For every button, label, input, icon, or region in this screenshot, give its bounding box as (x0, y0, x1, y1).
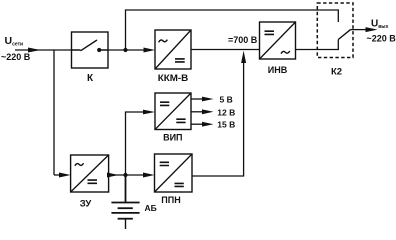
svg-text:ИНВ: ИНВ (268, 65, 288, 75)
wire ZU to PPN (109, 174, 144, 176)
wire KKM-V to INV (191, 49, 260, 51)
wire mains input (15, 49, 72, 51)
wire VIP out 5V (191, 98, 203, 100)
relay K2 dashed box (317, 3, 353, 58)
converter VIP box (155, 93, 191, 130)
wire K to KKM-V (108, 49, 144, 51)
node Uвых label (367, 19, 396, 44)
svg-text:К2: К2 (331, 66, 342, 77)
svg-text:ККМ-В: ККМ-В (158, 73, 189, 83)
INV DC symbol (265, 31, 275, 34)
junction battery node (123, 173, 127, 177)
wire riser to ZU (54, 174, 60, 176)
svg-text:=700 В: =700 В (228, 35, 258, 45)
INV AC symbol (281, 51, 290, 54)
svg-text:К: К (87, 73, 94, 84)
KKM-V DC symbol (175, 59, 185, 62)
KKM-V AC symbol (159, 40, 168, 43)
VIP DC symbol top (160, 102, 169, 105)
wire INV to K2 (296, 40, 339, 50)
switch K1 box (72, 32, 109, 68)
ZU AC symbol (75, 163, 84, 166)
svg-text:ЗУ: ЗУ (80, 198, 92, 209)
junction bypass (123, 48, 127, 52)
node Uсети label (1, 35, 31, 62)
svg-text:15 В: 15 В (217, 120, 235, 130)
wire output (351, 29, 367, 31)
converter KKM-V box (155, 30, 191, 69)
battery AB (111, 175, 139, 229)
switch K1 contacts (72, 40, 109, 51)
PPN DC symbol top (160, 162, 169, 165)
svg-text:ППН: ППН (161, 195, 180, 205)
svg-text:~220 В: ~220 В (1, 52, 31, 62)
inverter INV box (260, 22, 296, 59)
svg-text:ВИП: ВИП (163, 133, 182, 143)
svg-text:5 В: 5 В (220, 94, 233, 104)
svg-text:12 В: 12 В (217, 107, 235, 117)
wire battery node to VIP (126, 112, 144, 175)
PPN DC symbol bottom (175, 183, 184, 186)
wire VIP out 15V (191, 123, 203, 125)
wire bypass to K2 (126, 10, 339, 50)
wire PPN to 700V node (192, 60, 244, 176)
charger ZU box (71, 155, 109, 192)
wire VIP out 12V (191, 111, 203, 113)
relay K2 blade (338, 30, 350, 40)
svg-text:~220 В: ~220 В (367, 33, 396, 43)
svg-text:АБ: АБ (145, 203, 157, 213)
VIP DC symbol bottom (176, 119, 185, 122)
ZU DC symbol (88, 180, 98, 183)
wire mains to ZU riser (53, 50, 55, 175)
converter PPN box (155, 154, 193, 192)
